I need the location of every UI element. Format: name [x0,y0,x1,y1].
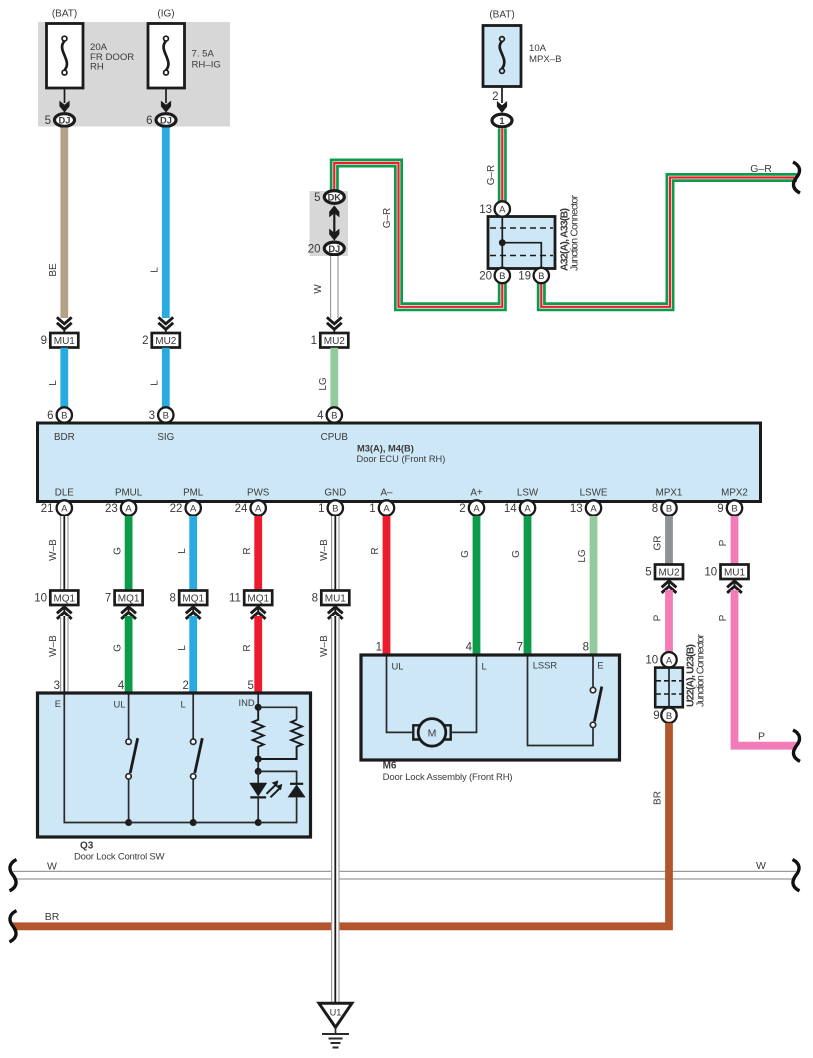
svg-text:Door Lock Assembly (Front RH): Door Lock Assembly (Front RH) [383,772,513,783]
svg-text:5: 5 [314,192,320,204]
svg-text:BR: BR [45,911,60,923]
motor M [413,719,450,747]
wire G PMUL pin 23A to 7 MQ1 [125,516,133,591]
connector 1 MU2 with chevrons [320,317,348,347]
svg-text:P: P [718,539,729,546]
svg-text:(IG): (IG) [157,9,174,20]
wire R 11 MQ1 to Q3 pin 5 [254,616,262,693]
junction dot LED-bus [255,819,262,826]
junction dot LED branch [255,768,262,775]
svg-text:21: 21 [41,503,54,515]
svg-text:MPX2: MPX2 [721,488,748,499]
connector 5 MU2 with chevrons up [655,565,683,593]
junction dot below resistors [255,756,262,763]
svg-text:Door Lock Control SW: Door Lock Control SW [74,851,165,862]
ECU pin 24 A circle [251,500,266,515]
wire L PML pin 22A to 8 MQ1 [189,516,197,591]
connector 9 MU1 with chevrons [50,317,78,347]
connector 11 MQ1 with chevrons up [244,591,272,619]
wire P 10 MU1 down and right to break [735,590,798,746]
svg-text:Door ECU (Front RH): Door ECU (Front RH) [357,454,446,464]
svg-text:DJ: DJ [328,244,340,254]
svg-text:M3(A), M4(B): M3(A), M4(B) [357,444,414,454]
svg-text:RH: RH [90,62,104,73]
svg-text:B: B [331,411,337,422]
wire LG LSWE pin 13A to M6 pin 8 [590,516,598,655]
svg-text:2: 2 [182,680,188,692]
svg-text:A: A [190,504,197,515]
pin 20 B circle [495,268,510,283]
svg-text:MQ1: MQ1 [118,594,140,605]
svg-text:13: 13 [570,503,583,515]
wire W-B GND pin 1B to 8 MU1 [331,516,340,591]
connector 6 DJ [156,114,176,127]
switch UL [126,695,138,823]
svg-text:1: 1 [499,116,504,126]
wire W-B 10 MQ1 to Q3 pin 3 [60,616,69,693]
wire BR horizontal bus [13,723,669,926]
svg-text:LG: LG [577,549,588,563]
wire G LSW pin 14A to M6 pin 7 [524,516,532,655]
fuse F2 7.5A RH-IG [148,24,185,89]
wire break symbol right G-R [793,162,800,193]
svg-text:B: B [61,411,67,422]
svg-text:9: 9 [717,503,723,515]
svg-text:MQ1: MQ1 [247,594,269,605]
switch L [191,695,203,823]
svg-text:A: A [666,656,673,667]
connector 7 MQ1 with chevrons up [115,591,143,619]
svg-text:LSWE: LSWE [580,488,608,499]
wire IND pin 5 down to junction [257,695,259,708]
wire fuse F2 to connector 6 DJ with arrowhead [161,88,171,113]
svg-text:GR: GR [653,536,664,551]
svg-text:GND: GND [324,488,346,499]
svg-text:1: 1 [369,503,375,515]
svg-text:LSSR: LSSR [533,660,558,671]
svg-text:A: A [499,205,506,216]
connector 8 MQ1 with chevrons up [179,591,207,619]
svg-text:BR: BR [653,791,664,805]
wire G A+ pin 2A to M6 pin 4 [473,516,481,655]
svg-text:7. 5A: 7. 5A [192,48,215,59]
ECU pin 14 A circle [520,500,535,515]
svg-text:L: L [177,548,188,554]
switch LSSR/E [590,657,602,728]
junction U22 pin 10 A circle [661,652,676,667]
svg-text:Q3: Q3 [80,841,94,852]
wire W horizontal bus [13,871,796,880]
svg-text:MPX–B: MPX–B [529,54,562,65]
svg-text:20: 20 [479,271,492,283]
svg-text:P: P [653,614,664,621]
svg-text:MU2: MU2 [155,336,177,347]
svg-text:B: B [163,411,169,422]
wire break symbol right W [793,860,800,891]
connector 20 DJ [324,242,344,255]
svg-text:M6: M6 [383,761,397,772]
ECU pin 8 B circle [661,500,676,515]
ECU pin 2 A circle [469,500,484,515]
LED D1 [249,771,282,822]
switch assembly Q3 Door Lock Control SW [38,693,311,837]
svg-text:G–R: G–R [486,165,497,186]
svg-text:A: A [255,504,262,515]
svg-text:24: 24 [235,503,248,515]
wire BE from 5 DJ to connector 9 MU1 [60,128,68,319]
svg-text:9: 9 [41,335,47,347]
svg-text:G: G [511,550,522,558]
connector 2 MU2 with chevrons [152,317,180,347]
wire break symbol left BR [10,911,17,942]
svg-text:4: 4 [118,680,125,692]
svg-text:8: 8 [652,503,658,515]
svg-text:A: A [61,504,68,515]
wire P MPX2 pin 9B to 10 MU1 [731,516,739,565]
wire fuse F1 to connector 5 DJ with arrowhead [59,88,69,113]
svg-text:SIG: SIG [157,432,174,443]
svg-text:10: 10 [34,593,47,605]
wire IND junction to right resistor branch [258,707,296,719]
svg-text:1: 1 [311,335,317,347]
ECU pin 13 A circle [586,500,601,515]
svg-text:23: 23 [105,503,118,515]
junction connector U22(A) U23(B) [655,668,683,708]
svg-text:G–R: G–R [382,208,393,229]
svg-text:2: 2 [142,335,148,347]
fuse F3 10A MPX-B [483,26,521,87]
svg-text:(BAT): (BAT) [489,10,514,21]
svg-text:13: 13 [479,204,492,216]
svg-text:W–B: W–B [319,635,330,657]
svg-text:B: B [731,504,737,515]
svg-text:B: B [538,271,544,282]
svg-text:R: R [370,547,381,554]
connector 1 oval [492,114,512,127]
diode D2 [258,784,305,823]
svg-text:DLE: DLE [55,488,75,499]
svg-text:PML: PML [183,488,204,499]
ECU pin 4 B circle [327,407,342,422]
svg-text:8: 8 [169,593,175,605]
svg-text:DK: DK [328,192,342,202]
wire G 7 MQ1 to Q3 pin 4 [125,616,133,693]
junction dot UL-bus [125,819,132,826]
svg-text:5: 5 [645,567,651,579]
svg-text:4: 4 [317,410,324,422]
svg-text:14: 14 [504,503,517,515]
svg-text:22: 22 [170,503,183,515]
svg-text:5: 5 [45,115,51,127]
svg-text:BDR: BDR [54,432,75,443]
svg-text:10: 10 [645,655,658,667]
svg-text:19: 19 [518,271,531,283]
svg-text:A: A [590,504,597,515]
connector shading DK/DJ [310,191,349,256]
svg-text:L: L [482,660,487,671]
junction connector A32(A) A33(B) [488,217,555,269]
wire W from 20 DJ to connector 1 MU2 [330,256,339,318]
ECU pin 1 A circle [379,500,394,515]
svg-text:LG: LG [318,377,329,391]
svg-text:11: 11 [229,593,241,605]
svg-text:E: E [55,698,61,709]
wire pin 4 to motor right [452,657,477,733]
ECU pin 6 B circle [57,407,72,422]
wire junction to diode branch [258,771,296,783]
svg-text:5: 5 [247,680,253,692]
svg-text:MU1: MU1 [724,568,746,579]
svg-text:L: L [48,380,59,386]
ECU pin 3 B circle [158,407,173,422]
svg-text:G: G [460,550,471,558]
svg-text:2: 2 [459,503,465,515]
svg-text:B: B [499,271,505,282]
svg-text:A: A [524,504,531,515]
junction dot IND [255,704,262,711]
wire break symbol left W [10,860,17,891]
pin 19 B circle [534,268,549,283]
svg-text:RH–IG: RH–IG [192,60,221,71]
svg-text:MQ1: MQ1 [53,594,75,605]
wire L from 9 MU1 to ECU pin 6B [60,348,68,408]
svg-text:DJ: DJ [160,115,172,125]
svg-text:A: A [125,504,132,515]
ground U1 [319,1003,352,1047]
junction U22 pin 9 B circle [661,708,676,723]
svg-text:DJ: DJ [59,115,71,125]
svg-text:W: W [47,861,57,873]
svg-text:9: 9 [653,710,659,722]
svg-text:W–B: W–B [319,539,330,561]
resistor R-right [258,720,302,759]
svg-text:R: R [242,644,253,651]
svg-text:1: 1 [318,503,324,515]
wire G-R fuse F3 to junction A32 pin 13A [498,128,507,201]
svg-text:LSW: LSW [517,488,539,499]
wire bus UL to L [129,822,194,824]
svg-text:Junction Connector: Junction Connector [695,634,707,708]
wire LG from 1 MU2 to ECU pin 4B [330,348,338,408]
svg-text:L: L [150,380,161,386]
ECU pin 1 B circle [328,500,343,515]
ECU M3(A) M4(B) Door ECU (Front RH) [38,423,761,502]
svg-text:2: 2 [492,91,498,103]
svg-text:MU2: MU2 [658,568,680,579]
svg-text:7: 7 [517,642,523,654]
connector 5 DK [324,191,344,204]
svg-text:8: 8 [312,593,318,605]
wire R A- pin 1A to M6 pin 1 [383,516,391,655]
wire fuse F3 to connector 1 with arrowhead [497,87,507,114]
svg-text:A: A [473,504,480,515]
svg-text:W: W [313,284,324,294]
fuse F1 20A FR DOOR RH [47,24,84,89]
wire DK to DJ with double arrowheads [329,205,339,240]
wire pin 7 LSSR to switch [528,657,594,746]
svg-text:PMUL: PMUL [115,488,143,499]
wire P 5 MU2 to junction U22 pin 10A [665,590,673,652]
svg-text:P: P [718,614,729,621]
svg-text:MU2: MU2 [324,336,346,347]
wire L 8 MQ1 to Q3 pin 2 [189,616,197,693]
svg-text:BE: BE [48,263,59,277]
ECU pin 23 A circle [121,500,136,515]
svg-text:20: 20 [308,243,321,255]
wire pin 1 to motor left [387,657,413,733]
svg-text:10A: 10A [529,43,547,54]
wire bus L to IND branch [193,822,258,824]
svg-text:B: B [332,504,338,515]
svg-text:Junction Connector: Junction Connector [569,195,581,272]
svg-text:CPUB: CPUB [321,432,349,443]
svg-text:(BAT): (BAT) [52,9,77,20]
wire L from 6 DJ to connector 2 MU2 [162,128,170,319]
wire GR MPX1 pin 8B to 5 MU2 [665,516,673,565]
svg-text:E: E [597,660,603,671]
ECU pin 21 A circle [57,500,72,515]
svg-text:G–R: G–R [750,163,772,175]
svg-text:L: L [177,645,188,651]
svg-text:10: 10 [704,567,717,579]
svg-text:R: R [242,547,253,554]
svg-text:1: 1 [376,642,382,654]
svg-text:W: W [756,860,766,872]
motor assembly M6 Door Lock Assembly [361,655,620,760]
svg-text:W–B: W–B [48,539,59,561]
wire E pin 3 to ground bus [64,695,128,823]
wire break symbol right P [793,730,800,761]
ECU pin 9 B circle [727,500,742,515]
svg-text:L: L [181,699,186,710]
svg-text:UL: UL [114,699,126,710]
connector 10 MU1 with chevrons up [721,565,749,593]
wire to LED junction [257,759,259,771]
wire W-B GND 8 MU1 down to ground U1 [331,616,340,1003]
svg-text:3: 3 [149,410,155,422]
resistor R-left [253,707,264,755]
wire G-R junction 20B to connector 5 DK [334,163,502,307]
svg-text:UL: UL [392,660,404,671]
svg-text:MU1: MU1 [54,336,76,347]
svg-text:IND: IND [239,697,255,708]
wire R PWS pin 24A to 11 MQ1 [254,516,262,591]
pin 13 A circle [495,201,510,216]
svg-text:8: 8 [583,642,589,654]
svg-text:MQ1: MQ1 [182,594,204,605]
svg-text:A: A [383,504,390,515]
svg-text:G: G [112,547,123,555]
connector 5 DJ [55,114,75,127]
svg-text:B: B [666,711,672,722]
LED emission arrows [267,785,276,794]
svg-text:B: B [666,504,672,515]
connector 10 MQ1 with chevrons up [50,591,78,619]
svg-text:6: 6 [47,410,53,422]
svg-text:MU1: MU1 [325,594,347,605]
svg-text:M: M [428,727,437,739]
svg-text:4: 4 [466,642,473,654]
connector 8 MU1 with chevrons up [321,591,349,619]
svg-text:6: 6 [146,115,152,127]
svg-text:U1: U1 [330,1008,342,1018]
svg-text:W–B: W–B [48,635,59,657]
fuse block shaded area [38,22,230,127]
svg-text:L: L [150,267,161,273]
wire G-R junction 19B to right break [541,178,797,307]
svg-text:PWS: PWS [247,488,270,499]
wire L from 2 MU2 to ECU pin 3B [162,348,170,408]
svg-text:P: P [758,731,765,743]
wire W-B DLE pin 21A to 10 MQ1 [60,516,69,591]
svg-text:MPX1: MPX1 [656,488,683,499]
svg-text:A+: A+ [470,488,483,499]
svg-text:3: 3 [54,680,60,692]
ECU pin 22 A circle [186,500,201,515]
svg-text:A–: A– [381,488,394,499]
svg-text:G: G [112,644,123,652]
svg-text:7: 7 [105,593,111,605]
junction dot L-bus [190,819,197,826]
